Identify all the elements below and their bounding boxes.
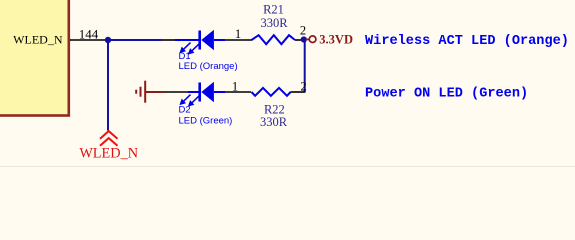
svg-text:1: 1 [235, 27, 241, 41]
svg-text:330R: 330R [260, 16, 288, 30]
svg-text:2: 2 [300, 24, 306, 38]
svg-text:WLED_N: WLED_N [13, 33, 63, 47]
svg-text:LED (Green): LED (Green) [179, 116, 233, 127]
svg-text:3.3VD: 3.3VD [319, 32, 353, 46]
svg-text:WLED_N: WLED_N [79, 146, 138, 162]
svg-text:LED (Orange): LED (Orange) [179, 61, 238, 72]
svg-text:330R: 330R [260, 115, 288, 129]
svg-text:Power ON LED (Green): Power ON LED (Green) [365, 87, 528, 102]
svg-text:144: 144 [79, 27, 99, 42]
svg-text:R21: R21 [263, 2, 284, 16]
svg-text:2: 2 [300, 80, 306, 94]
svg-text:Wireless ACT LED (Orange): Wireless ACT LED (Orange) [365, 34, 569, 49]
svg-text:1: 1 [232, 80, 238, 94]
svg-text:D2: D2 [179, 105, 191, 116]
